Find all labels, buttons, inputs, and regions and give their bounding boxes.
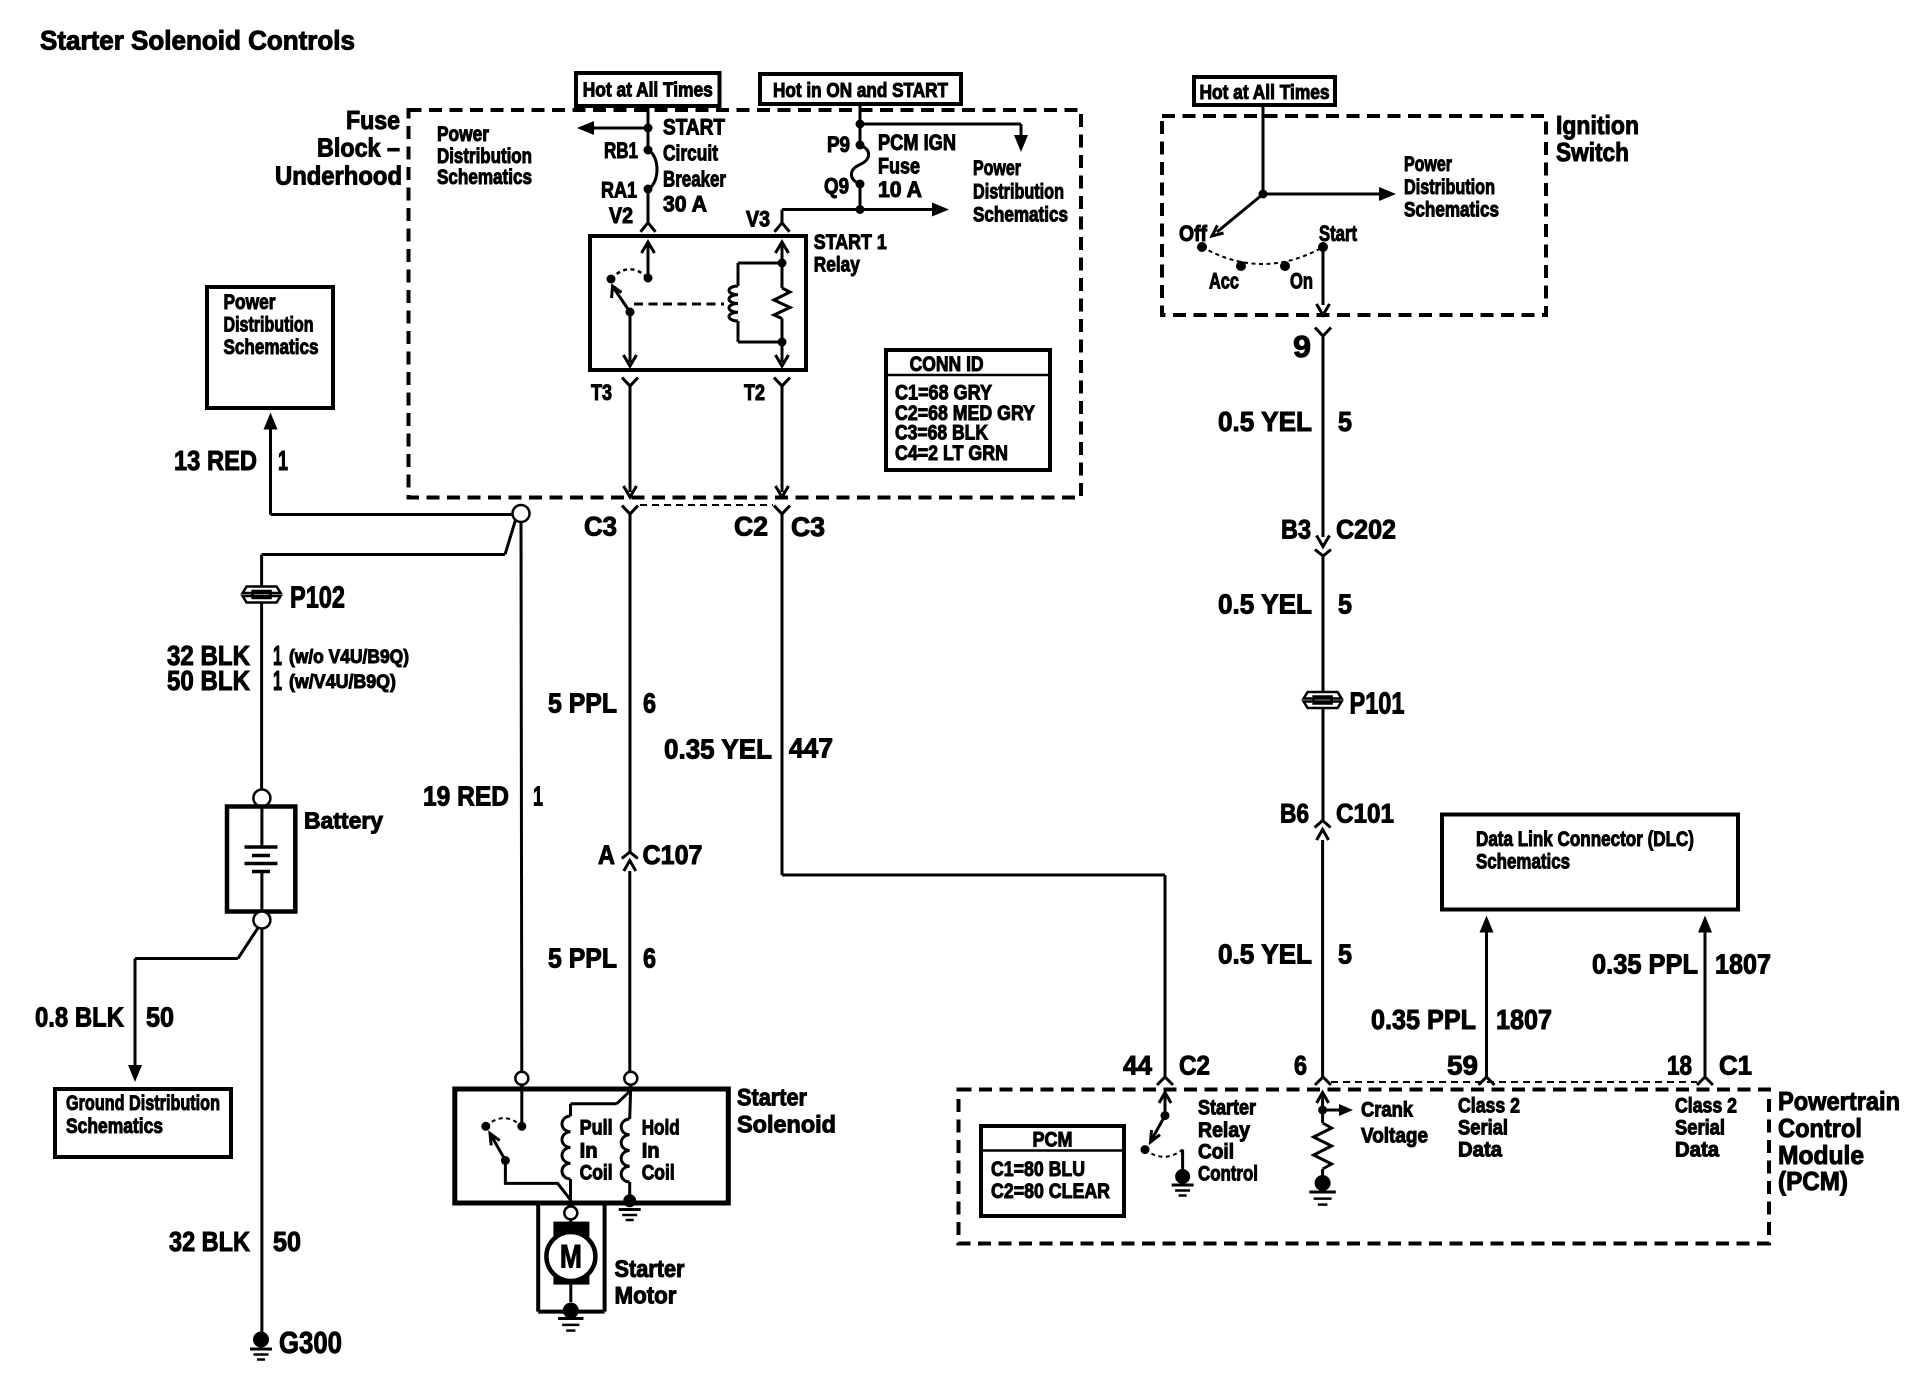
svg-text:Power: Power: [224, 291, 276, 314]
svg-text:Power: Power: [437, 123, 489, 146]
svg-text:50 BLK: 50 BLK: [167, 665, 250, 696]
svg-text:B3: B3: [1281, 515, 1311, 545]
svg-text:Fuse: Fuse: [878, 154, 920, 179]
svg-text:Class 2: Class 2: [1458, 1095, 1520, 1118]
svg-text:On: On: [1290, 269, 1313, 294]
svg-text:Control: Control: [1778, 1113, 1862, 1143]
svg-text:18: 18: [1667, 1051, 1692, 1081]
svg-text:Ignition: Ignition: [1556, 110, 1639, 140]
svg-text:C3: C3: [791, 512, 825, 542]
svg-text:Battery: Battery: [304, 808, 383, 834]
svg-text:C2=80 CLEAR: C2=80 CLEAR: [991, 1180, 1110, 1203]
svg-text:50: 50: [146, 1002, 174, 1033]
svg-text:RA1: RA1: [601, 178, 637, 203]
svg-text:Starter: Starter: [615, 1256, 685, 1283]
svg-text:B6: B6: [1280, 799, 1309, 829]
svg-text:Solenoid: Solenoid: [737, 1112, 836, 1139]
svg-text:Coil: Coil: [642, 1162, 675, 1185]
svg-text:(PCM): (PCM): [1778, 1166, 1848, 1196]
svg-text:(w/V4U/B9Q): (w/V4U/B9Q): [289, 672, 396, 693]
svg-text:1: 1: [278, 445, 288, 476]
svg-text:In: In: [642, 1140, 660, 1163]
svg-text:V3: V3: [746, 207, 770, 232]
svg-text:5 PPL: 5 PPL: [548, 943, 617, 974]
svg-text:0.5 YEL: 0.5 YEL: [1218, 939, 1312, 970]
svg-text:Switch: Switch: [1556, 137, 1629, 167]
svg-text:6: 6: [1294, 1051, 1307, 1081]
svg-text:V2: V2: [609, 203, 633, 228]
svg-text:Coil: Coil: [1198, 1141, 1234, 1164]
svg-text:Ground Distribution: Ground Distribution: [66, 1092, 220, 1115]
svg-text:Power: Power: [1404, 153, 1452, 176]
svg-text:Class 2: Class 2: [1675, 1095, 1737, 1118]
svg-text:P101: P101: [1350, 686, 1405, 721]
svg-text:Hot at All Times: Hot at All Times: [583, 80, 713, 102]
svg-text:P9: P9: [827, 132, 850, 157]
svg-text:Power: Power: [973, 157, 1021, 180]
svg-text:G300: G300: [279, 1325, 342, 1360]
svg-text:Starter: Starter: [737, 1085, 807, 1112]
svg-text:Q9: Q9: [824, 174, 849, 199]
svg-text:(w/o V4U/B9Q): (w/o V4U/B9Q): [289, 647, 409, 668]
svg-text:Serial: Serial: [1458, 1117, 1508, 1140]
svg-text:Relay: Relay: [1198, 1119, 1250, 1142]
svg-text:Starter Solenoid Controls: Starter Solenoid Controls: [40, 26, 355, 56]
svg-text:Underhood: Underhood: [275, 161, 402, 191]
svg-text:10 A: 10 A: [878, 177, 922, 202]
svg-text:C2: C2: [1179, 1051, 1210, 1081]
svg-text:C101: C101: [1336, 799, 1394, 829]
svg-text:P102: P102: [290, 580, 345, 615]
svg-text:CONN ID: CONN ID: [910, 353, 984, 376]
svg-text:Circuit: Circuit: [663, 141, 719, 166]
svg-text:Pull: Pull: [580, 1117, 613, 1140]
svg-text:30 A: 30 A: [663, 192, 707, 217]
svg-text:44: 44: [1123, 1051, 1152, 1081]
svg-text:C3: C3: [584, 512, 617, 542]
svg-text:Coil: Coil: [580, 1162, 613, 1185]
svg-text:Hold: Hold: [642, 1117, 680, 1140]
svg-text:Data Link Connector (DLC): Data Link Connector (DLC): [1476, 828, 1694, 851]
svg-text:1: 1: [533, 781, 543, 812]
svg-text:Hot at All Times: Hot at All Times: [1200, 82, 1330, 104]
svg-text:Schematics: Schematics: [224, 336, 319, 359]
svg-text:Data: Data: [1458, 1139, 1502, 1162]
svg-text:1807: 1807: [1715, 949, 1771, 980]
svg-text:PCM IGN: PCM IGN: [878, 130, 956, 155]
svg-text:0.35 PPL: 0.35 PPL: [1371, 1004, 1476, 1035]
svg-text:0.8 BLK: 0.8 BLK: [35, 1002, 124, 1033]
svg-text:Distribution: Distribution: [437, 145, 532, 168]
svg-text:0.35 PPL: 0.35 PPL: [1592, 949, 1698, 980]
svg-text:19 RED: 19 RED: [423, 781, 509, 812]
svg-text:Data: Data: [1675, 1139, 1719, 1162]
svg-text:9: 9: [1293, 329, 1311, 364]
svg-text:Distribution: Distribution: [973, 181, 1064, 204]
svg-text:5: 5: [1338, 406, 1352, 437]
svg-text:5: 5: [1338, 589, 1352, 620]
svg-text:Hot in ON and START: Hot in ON and START: [773, 80, 948, 102]
svg-text:Distribution: Distribution: [224, 314, 314, 337]
svg-text:C202: C202: [1336, 515, 1396, 545]
svg-text:C107: C107: [643, 840, 703, 870]
svg-text:Distribution: Distribution: [1404, 176, 1495, 199]
svg-text:Schematics: Schematics: [437, 166, 532, 189]
svg-text:Breaker: Breaker: [663, 167, 726, 192]
svg-text:6: 6: [643, 943, 656, 974]
svg-text:Crank: Crank: [1361, 1099, 1413, 1122]
svg-text:Serial: Serial: [1675, 1117, 1725, 1140]
svg-text:Schematics: Schematics: [66, 1115, 163, 1138]
svg-text:Voltage: Voltage: [1361, 1125, 1428, 1148]
svg-text:M: M: [560, 1239, 582, 1275]
svg-text:Control: Control: [1198, 1163, 1258, 1186]
svg-text:Off: Off: [1179, 221, 1208, 246]
svg-text:50: 50: [273, 1226, 301, 1257]
svg-text:Schematics: Schematics: [973, 204, 1068, 227]
svg-text:6: 6: [643, 688, 656, 719]
svg-text:Relay: Relay: [814, 254, 860, 277]
svg-text:C4=2 LT GRN: C4=2 LT GRN: [895, 442, 1008, 465]
svg-text:Acc: Acc: [1209, 269, 1239, 294]
svg-text:PCM: PCM: [1033, 1129, 1073, 1152]
svg-text:Powertrain: Powertrain: [1778, 1086, 1900, 1116]
svg-text:START 1: START 1: [814, 231, 887, 254]
svg-text:T2: T2: [744, 380, 765, 405]
svg-text:447: 447: [789, 733, 833, 764]
svg-text:0.35 YEL: 0.35 YEL: [664, 734, 772, 765]
svg-text:A: A: [598, 840, 615, 870]
svg-text:Start: Start: [1319, 221, 1358, 246]
svg-text:0.5 YEL: 0.5 YEL: [1218, 406, 1312, 437]
svg-text:C1: C1: [1719, 1051, 1752, 1081]
svg-text:5 PPL: 5 PPL: [548, 688, 617, 719]
svg-text:5: 5: [1338, 939, 1352, 970]
svg-text:0.5 YEL: 0.5 YEL: [1218, 589, 1312, 620]
svg-text:Motor: Motor: [615, 1283, 677, 1310]
svg-text:32 BLK: 32 BLK: [169, 1226, 250, 1257]
svg-text:In: In: [580, 1140, 598, 1163]
svg-text:START: START: [663, 115, 725, 140]
svg-text:RB1: RB1: [604, 138, 638, 163]
svg-text:C1=80 BLU: C1=80 BLU: [991, 1158, 1085, 1181]
svg-text:59: 59: [1447, 1051, 1478, 1081]
svg-text:Schematics: Schematics: [1476, 851, 1570, 874]
svg-text:13 RED: 13 RED: [174, 445, 257, 476]
svg-text:C2: C2: [734, 512, 768, 542]
svg-text:1807: 1807: [1496, 1004, 1552, 1035]
svg-text:Starter: Starter: [1198, 1097, 1256, 1120]
svg-text:Fuse: Fuse: [346, 105, 400, 135]
svg-text:T3: T3: [591, 380, 612, 405]
svg-text:Schematics: Schematics: [1404, 199, 1499, 222]
svg-text:1: 1: [273, 665, 282, 696]
svg-text:Block –: Block –: [317, 133, 400, 163]
